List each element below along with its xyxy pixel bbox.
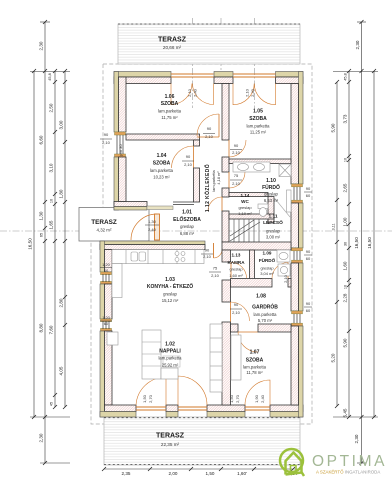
svg-text:lam.parketta: lam.parketta [158,356,182,361]
svg-text:1.08: 1.08 [256,294,266,300]
svg-text:5,45: 5,45 [343,408,348,417]
radiator [287,190,292,212]
svg-text:6,88 m²: 6,88 m² [180,231,195,236]
svg-text:SZOBA: SZOBA [249,116,267,122]
window W 1.04 [114,132,126,157]
corridor right wall seg [222,157,229,172]
svg-text:SZOBA: SZOBA [153,161,171,167]
washer [278,264,290,276]
svg-text:45,8: 45,8 [344,73,348,80]
front door leaf and arc [131,214,160,240]
kitchen counter [112,250,204,264]
right wall seg4 [291,326,303,417]
right chain 3 [361,22,363,463]
bottom chain [104,468,300,470]
terrace glass door 1.06 [171,74,214,105]
left entry terrace [79,208,149,242]
svg-text:10: 10 [344,158,348,162]
svg-text:90: 90 [104,132,109,137]
svg-text:1.01: 1.01 [182,210,192,216]
svg-text:60: 60 [306,256,311,261]
roof overhang dashed outline [91,64,312,424]
door wc [208,197,222,211]
svg-text:75: 75 [213,266,218,271]
left chain 2 [44,22,46,463]
svg-text:15,12 m²: 15,12 m² [162,298,179,303]
wall 1.05/1.10 [229,159,291,164]
svg-text:GARDRÓB: GARDRÓB [252,303,278,311]
svg-text:6,60: 6,60 [39,135,44,144]
svg-text:2,10: 2,10 [211,273,220,278]
svg-text:1,19 m²: 1,19 m² [238,211,252,216]
svg-text:1,65: 1,65 [49,220,54,229]
svg-text:greslap: greslap [260,266,274,271]
end table [107,332,118,345]
svg-text:45,8: 45,8 [48,73,52,80]
dimension labels right [331,40,373,443]
door 1.05 [229,140,246,157]
entry recess wall horizontal [114,202,194,211]
svg-text:2,10: 2,10 [205,134,214,139]
svg-text:2,10: 2,10 [232,310,241,315]
svg-text:KAMRA: KAMRA [227,260,245,265]
svg-text:11,25 m²: 11,25 m² [250,130,267,135]
svg-text:2,40: 2,40 [260,394,265,403]
corridor right wall seg2 [222,188,229,197]
tick marks left [32,20,67,465]
svg-text:45: 45 [50,402,54,406]
wall nappali/kamra lower [222,280,231,302]
svg-text:greslap: greslap [266,229,280,234]
toilet [258,204,268,209]
top wall segment A [114,72,171,84]
left chain 1 [33,71,35,417]
door 1.06 arc [197,114,219,137]
bath window [291,184,303,203]
svg-text:greslap: greslap [229,267,243,272]
svg-text:25,92 m²: 25,92 m² [162,363,179,368]
svg-text:1.04: 1.04 [157,153,167,159]
bottom wall seg1 [100,405,136,417]
door 1.09 [272,263,288,279]
svg-text:3,04 m²: 3,04 m² [260,271,274,276]
wall bath/wc [229,193,268,197]
svg-text:2,10: 2,10 [187,88,192,97]
svg-text:90: 90 [207,126,212,131]
svg-text:16,50: 16,50 [28,238,33,250]
right wall seg2 [291,203,303,248]
tick marks right [335,20,376,465]
svg-text:90: 90 [234,302,239,307]
svg-text:greslap: greslap [163,292,177,297]
left lower wall seg1 [100,241,112,272]
svg-text:1,30: 1,30 [39,211,44,220]
dimension labels left [28,41,64,442]
svg-text:1,30: 1,30 [148,219,157,224]
svg-text:3,11: 3,11 [332,223,336,230]
terrace glass door 1.05 [233,74,276,105]
left lower wall seg2 [100,284,112,319]
svg-text:90: 90 [205,248,210,253]
svg-text:60: 60 [306,308,311,313]
sink [131,252,138,261]
svg-text:60: 60 [306,193,311,198]
svg-text:ELŐSZOBA: ELŐSZOBA [173,216,201,223]
svg-text:2,10: 2,10 [203,254,212,259]
svg-text:1,80: 1,80 [59,189,64,198]
svg-text:1,20: 1,20 [102,262,111,267]
svg-text:1.13: 1.13 [232,253,241,258]
svg-text:2,30: 2,30 [39,433,44,442]
svg-text:1.06: 1.06 [165,94,175,100]
bath counter [233,162,270,172]
door 1.07 [238,332,258,352]
svg-text:2,30: 2,30 [39,41,44,50]
bottom wall pier2 [166,405,178,417]
right chain 2 [348,71,350,417]
svg-text:1,20: 1,20 [102,315,111,320]
svg-text:1.11: 1.11 [268,214,277,220]
svg-text:10,23 m²: 10,23 m² [153,175,170,180]
shower [279,164,291,177]
window 1.09 [291,248,303,263]
wall kamra+1.09/gardrob seg1 [231,279,273,288]
svg-text:1,50: 1,50 [206,471,215,476]
kamra door [231,263,247,279]
svg-text:2,28: 2,28 [343,293,348,302]
stairs [230,219,260,242]
svg-text:2,80: 2,80 [59,298,64,307]
svg-text:2,50: 2,50 [49,103,54,112]
wall 1.06/1.04 [126,134,200,140]
svg-text:1,60: 1,60 [343,261,348,270]
svg-text:1,90: 1,90 [254,394,259,403]
right chain 1 [336,82,338,406]
sideboard [210,324,222,392]
svg-text:2,70: 2,70 [235,394,240,403]
kitchen entry door arc [213,243,215,258]
svg-text:5,20: 5,20 [331,353,336,362]
svg-text:11,75 m²: 11,75 m² [161,115,178,120]
svg-text:30: 30 [344,242,348,246]
svg-text:lam.parketta: lam.parketta [253,312,277,317]
svg-text:90: 90 [186,154,191,159]
svg-text:lam.parketta: lam.parketta [243,365,267,370]
dimension labels bottom [122,471,298,476]
svg-text:60: 60 [104,268,109,273]
desk 1.07 [231,335,241,380]
svg-text:OPTIMA: OPTIMA [312,453,387,470]
svg-text:3,00: 3,00 [59,120,64,129]
bottom wall seg3 [207,405,245,417]
svg-text:8,80: 8,80 [39,323,44,332]
svg-text:2,40: 2,40 [250,88,255,97]
left upper wall seg2 [114,157,126,210]
svg-text:2,65: 2,65 [343,183,348,192]
svg-text:2,40: 2,40 [193,88,198,97]
window 1.07 [291,311,303,326]
svg-text:2,10: 2,10 [245,88,250,97]
svg-text:2,35: 2,35 [122,471,131,476]
door bath 1.10 [229,172,245,188]
svg-text:5,90: 5,90 [343,338,348,347]
svg-text:greslap: greslap [264,192,278,197]
left chain 4 [64,71,66,407]
svg-text:4,05: 4,05 [59,366,64,375]
corridor right wall seg3 [222,211,229,242]
svg-text:1,00: 1,00 [343,217,348,226]
svg-text:1,50: 1,50 [229,394,234,403]
svg-text:lam.parketta: lam.parketta [150,168,174,173]
svg-text:65: 65 [40,233,44,237]
svg-text:greslap: greslap [180,224,194,229]
svg-text:lam.parketta: lam.parketta [246,124,270,129]
top wall segment C [276,72,304,84]
sofa [142,330,161,379]
svg-text:1.12 KÖZLEKEDŐ: 1.12 KÖZLEKEDŐ [204,164,211,212]
svg-text:2,40: 2,40 [148,227,157,232]
right wall seg3 [291,263,303,311]
svg-text:16,50: 16,50 [367,237,372,249]
svg-text:4,18 m²: 4,18 m² [216,171,221,185]
svg-text:pm 30: pm 30 [118,144,123,156]
room 1.07 terrace door [245,380,270,410]
svg-text:TERASZ: TERASZ [91,219,117,226]
svg-text:11,78 m²: 11,78 m² [246,370,263,375]
svg-text:16,50: 16,50 [354,237,359,249]
svg-text:NAPPALI: NAPPALI [159,349,181,355]
top wall pier between terrace doors [214,72,233,84]
nappali glass door 1 [136,377,166,410]
svg-text:2,30: 2,30 [355,40,360,49]
left chain 3 [54,71,56,407]
bottom terrace deck [104,417,300,465]
wall nappali/1.07 [222,322,231,405]
center wall 1.06/1.05 [222,84,229,141]
left lower wall seg3 [100,331,112,417]
svg-text:5,70 m²: 5,70 m² [258,318,273,323]
svg-text:KONYHA - ÉTKEZŐ: KONYHA - ÉTKEZŐ [147,282,193,290]
svg-text:SZOBA: SZOBA [246,358,264,364]
svg-text:1,60': 1,60' [237,471,247,476]
corridor left wall lower [194,168,200,202]
wall kamra+1.09/gardrob seg2 [288,279,291,288]
svg-text:7,60: 7,60 [49,325,54,334]
svg-text:3,10: 3,10 [49,163,54,172]
svg-text:TERASZ: TERASZ [158,37,187,44]
svg-text:1.07: 1.07 [250,350,260,356]
bottom wall seg4 [270,405,303,417]
wc right wall [268,197,274,224]
top terrace deck [118,24,300,64]
svg-text:1.03: 1.03 [165,277,175,283]
svg-text:22,35 m²: 22,35 m² [161,442,180,447]
gardrob door [231,302,250,321]
right wall seg1 [291,72,303,185]
svg-text:SZOBA: SZOBA [161,101,179,107]
kitchen window 1 [100,272,112,284]
svg-text:5,90: 5,90 [331,123,336,132]
svg-text:1.09: 1.09 [263,251,272,256]
svg-text:90: 90 [306,186,311,191]
svg-text:FÜRDŐ: FÜRDŐ [262,184,280,191]
door 1.04 arc [172,146,194,168]
svg-text:greslap: greslap [238,205,252,210]
svg-text:FÜRDŐ: FÜRDŐ [259,257,276,263]
svg-text:75: 75 [234,173,239,178]
svg-text:90: 90 [306,301,311,306]
basin 1.09 [277,250,290,262]
svg-text:2,70: 2,70 [148,394,153,403]
svg-text:4,32 m²: 4,32 m² [97,228,112,233]
wall stairs bottom / kamra top [222,242,291,250]
right chain 4 [373,71,375,417]
svg-text:90: 90 [234,143,239,148]
stove [175,252,179,256]
svg-text:TERASZ: TERASZ [156,433,185,440]
svg-text:2,10: 2,10 [283,274,288,283]
svg-text:2,30: 2,30 [354,434,359,443]
svg-text:1.10: 1.10 [266,178,276,184]
svg-text:1.02: 1.02 [165,342,175,348]
nappali glass door 2 [178,376,207,410]
svg-text:lam.parketta: lam.parketta [158,109,182,114]
svg-text:2,10: 2,10 [232,150,241,155]
svg-text:6,53 m²: 6,53 m² [264,198,279,203]
svg-text:2,10: 2,10 [102,140,111,145]
svg-text:A SZAKÉRTŐ INGATLANIRODA: A SZAKÉRTŐ INGATLANIRODA [316,470,380,475]
svg-text:2,10: 2,10 [232,181,241,186]
svg-text:1,60 m²: 1,60 m² [229,273,243,278]
svg-text:90: 90 [306,249,311,254]
svg-text:2,10: 2,10 [184,162,193,167]
svg-text:60: 60 [104,321,109,326]
svg-text:10: 10 [50,199,54,203]
wall gardrob/1.07 seg1 [231,324,239,332]
svg-text:20,66 m²: 20,66 m² [163,45,182,50]
svg-text:10: 10 [344,285,348,289]
coffee table [163,356,180,367]
kitchen north wall [100,241,205,250]
wall gardrob/1.07 seg2 [258,324,291,332]
extension lines [30,71,70,73]
svg-text:1.05: 1.05 [253,109,263,115]
left upper wall seg1 [114,72,126,133]
svg-text:1,50: 1,50 [142,394,147,403]
kamra left wall [222,250,231,262]
fraction bars for opening labels [100,134,312,322]
wall wc/stairs [229,214,274,219]
svg-text:2,00: 2,00 [169,471,178,476]
wall kamra/1.09 [250,250,255,280]
bottom ticks [102,467,295,471]
svg-text:1.14: 1.14 [241,193,250,198]
corridor left wall upper [194,140,200,146]
svg-text:WC: WC [241,199,249,204]
svg-text:3,00 m²: 3,00 m² [266,235,281,240]
nappali window 2 [100,319,112,331]
svg-text:3,73: 3,73 [343,114,348,123]
